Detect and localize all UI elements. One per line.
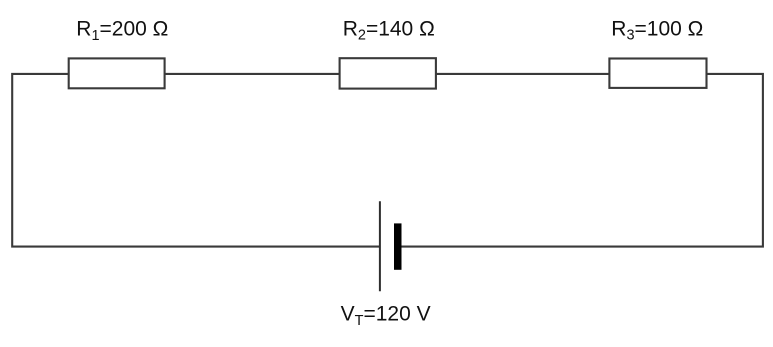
wire: left loop (R1 left terminal, left vertical, bottom to battery + plate)	[12, 74, 380, 247]
svg-text:R3=100 Ω: R3=100 Ω	[611, 18, 703, 44]
svg-text:R2=140 Ω: R2=140 Ω	[343, 18, 435, 44]
resistor R1	[69, 58, 165, 88]
wire: R1 to R2	[165, 73, 340, 75]
battery VT negative plate (short thick)	[394, 223, 402, 269]
svg-text:VT=120 V: VT=120 V	[341, 302, 431, 329]
resistor R3	[609, 59, 706, 88]
wire: right loop (R3 right terminal, right vertical, bottom to battery - plate)	[402, 74, 763, 247]
svg-text:R1=200 Ω: R1=200 Ω	[76, 18, 168, 44]
resistor R2	[340, 58, 436, 88]
wire: R2 to R3	[436, 73, 610, 75]
battery VT positive plate (long thin)	[379, 201, 381, 291]
